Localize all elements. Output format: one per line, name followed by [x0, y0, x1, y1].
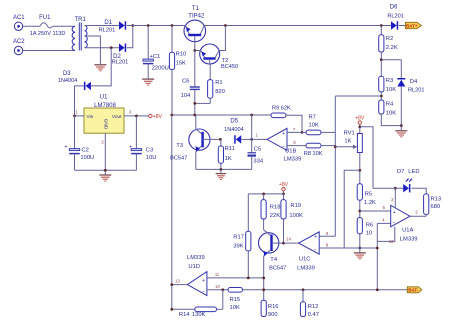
- node R4/D4 ground junction: [400, 124, 403, 127]
- node D7 line pin3 tap: [394, 187, 397, 190]
- svg-text:130K: 130K: [192, 312, 206, 317]
- node T2 emitter on T1 base line: [193, 49, 196, 52]
- node wiper on reference vertical: [334, 145, 337, 148]
- svg-text:R10: R10: [176, 51, 187, 57]
- wire R14 drop: [222, 290, 224, 310]
- wire U1C -input lead: [319, 247, 344, 249]
- svg-text:BC547: BC547: [170, 155, 187, 161]
- svg-text:+: +: [129, 144, 132, 150]
- svg-text:820: 820: [215, 89, 225, 95]
- svg-text:2.2K: 2.2K: [386, 45, 398, 51]
- op-amp U1C LM339: [297, 232, 319, 272]
- svg-text:C6: C6: [182, 79, 189, 85]
- wire U1B -input lead: [287, 145, 306, 147]
- node R17 on U1D +input: [247, 277, 250, 280]
- resistor R15 10K: [228, 288, 243, 311]
- wire U1C +input lead: [319, 235, 335, 237]
- svg-text:+: +: [393, 210, 396, 216]
- svg-text:+C1: +C1: [150, 54, 161, 60]
- svg-text:15K: 15K: [176, 61, 186, 67]
- node T4 emitter on U1D +input: [262, 277, 265, 280]
- wire ground net under T3: [196, 168, 252, 170]
- svg-text:T1: T1: [192, 6, 200, 12]
- wire U1D +input lead: [207, 277, 264, 279]
- svg-text:RL201: RL201: [387, 13, 403, 19]
- wire D4 branch: [381, 60, 401, 78]
- node U1B output junction: [250, 138, 253, 141]
- svg-text:10K: 10K: [386, 110, 396, 116]
- svg-text:AC2: AC2: [13, 39, 25, 45]
- svg-text:BC450: BC450: [221, 64, 238, 70]
- resistor R12 0.47: [300, 290, 319, 318]
- svg-text:10K: 10K: [309, 123, 319, 129]
- node T1 base column on drive net: [193, 114, 196, 117]
- resistor R5 1.2K: [357, 184, 376, 218]
- svg-text:Vin: Vin: [87, 114, 94, 120]
- node R12 on bottom rail: [302, 288, 305, 291]
- svg-text:U1A: U1A: [402, 227, 413, 233]
- resistor R4 10K: [379, 100, 402, 126]
- node R6 bottom ground junction: [358, 247, 361, 250]
- svg-text:2200U: 2200U: [152, 66, 169, 72]
- resistor R7 10K: [306, 115, 335, 135]
- node D3 tap on TR1 bottom wire: [110, 46, 113, 49]
- svg-text:LM7808: LM7808: [94, 103, 116, 109]
- wire RV1 bottom to U1C -input column: [344, 170, 360, 248]
- svg-text:+: +: [64, 144, 67, 150]
- svg-text:FU1: FU1: [39, 15, 51, 21]
- wire U1C output lead: [284, 242, 299, 244]
- svg-text:12: 12: [389, 239, 394, 244]
- pin 4 label U1A: [382, 218, 385, 223]
- svg-text:R7: R7: [309, 115, 316, 121]
- fuse FU1: [30, 15, 66, 37]
- svg-text:Vout: Vout: [112, 114, 122, 120]
- wire to ground below R4: [400, 126, 402, 131]
- node Vout/C3 junction: [135, 115, 138, 118]
- svg-text:13: 13: [175, 278, 180, 283]
- capacitor C5 334: [248, 139, 264, 169]
- svg-text:R2: R2: [386, 36, 393, 42]
- svg-text:10: 10: [366, 230, 372, 236]
- svg-text:+: +: [282, 131, 285, 137]
- svg-text:1.2K: 1.2K: [364, 200, 376, 206]
- wire U1D -input lead: [207, 289, 228, 291]
- node T2 collector on rail: [224, 24, 227, 27]
- svg-text:U1C: U1C: [299, 257, 311, 263]
- wire U1A -input lead: [377, 222, 390, 224]
- ground below R4: [395, 131, 407, 137]
- wire D4 cathode to R4 bottom: [400, 87, 402, 126]
- wire U1A pin3 VCC lead: [394, 188, 396, 208]
- pin 2 of U1: [101, 140, 104, 145]
- svg-text:+: +: [202, 278, 205, 284]
- node D5 column on drive net: [250, 114, 253, 117]
- svg-text:334: 334: [253, 159, 263, 165]
- node +8V/R19 junction: [282, 193, 285, 196]
- pin 5 label U1A: [383, 205, 386, 210]
- node U1D output on left column: [170, 283, 173, 286]
- node D6/R2 on rail: [380, 24, 383, 27]
- wire TR1 top tap to D1: [85, 25, 120, 27]
- wire U1A output lead: [410, 215, 426, 217]
- svg-text:+8V: +8V: [153, 114, 163, 120]
- resistor R14 130K: [172, 307, 223, 318]
- svg-text:39K: 39K: [233, 243, 243, 249]
- svg-text:680: 680: [431, 204, 441, 210]
- svg-text:100K: 100K: [289, 213, 303, 219]
- svg-text:C2: C2: [82, 148, 89, 154]
- node R3/R4 junction: [380, 95, 383, 98]
- resistor R1 820: [208, 80, 225, 104]
- ground below U1: [99, 175, 111, 181]
- resistor R10 15K: [169, 26, 186, 116]
- svg-text:1A 250V 113D: 1A 250V 113D: [30, 31, 66, 37]
- diode D3 1N4004: [58, 71, 91, 90]
- pin 1 label U1B output: [255, 133, 258, 138]
- pin 10 label U1D: [215, 284, 220, 289]
- wire reference tap to x335 vertical: [335, 95, 381, 97]
- svg-text:D6: D6: [390, 5, 398, 11]
- wire TR1 bottom tap to D2: [85, 47, 120, 49]
- resistor R18 22K: [261, 194, 280, 219]
- node T4 emitter on bottom rail: [262, 288, 265, 291]
- node x377 column on bottom rail: [376, 288, 379, 291]
- transistor T2 BC450: [195, 26, 238, 80]
- resistor R11 1K: [218, 139, 235, 169]
- wire U1 GND lead: [104, 133, 106, 174]
- wire +8V to D7 anode line: [360, 127, 373, 188]
- svg-text:R18: R18: [270, 205, 281, 211]
- node R14 tap on -input line: [221, 288, 224, 291]
- svg-text:+: +: [314, 235, 317, 241]
- resistor R13 680: [424, 194, 442, 216]
- node U1 GND junction: [104, 169, 107, 172]
- wire stub to ground below R6: [359, 248, 361, 253]
- svg-text:1N4004: 1N4004: [224, 127, 244, 133]
- svg-text:D4: D4: [410, 79, 418, 85]
- svg-text:14: 14: [286, 236, 291, 241]
- node C6/R1 junction: [193, 102, 196, 105]
- svg-text:R14: R14: [179, 312, 190, 317]
- wire U1A pin12 lead: [377, 227, 395, 242]
- svg-text:900: 900: [268, 312, 278, 317]
- svg-text:10K: 10K: [230, 305, 240, 311]
- svg-text:−: −: [314, 247, 317, 253]
- wire +8V down to divider line: [283, 191, 285, 194]
- svg-text:U1D: U1D: [188, 264, 200, 270]
- svg-text:TR1: TR1: [75, 17, 87, 23]
- svg-text:R1: R1: [215, 80, 222, 86]
- svg-text:−: −: [393, 220, 396, 226]
- power flag +8V at RV1: [355, 116, 365, 125]
- wire long vertical left column: [171, 115, 173, 309]
- svg-text:BAT-: BAT-: [408, 288, 419, 293]
- op-amp U1D LM339: [187, 255, 207, 295]
- svg-text:RV1: RV1: [344, 131, 355, 137]
- transistor T4 BC547: [259, 230, 287, 300]
- capacitor C3 10U: [129, 116, 156, 170]
- resistor R2 2.2K: [379, 26, 398, 77]
- pin 1 of U1: [75, 110, 78, 115]
- svg-text:AC1: AC1: [13, 15, 25, 21]
- wire R5/R6 junction to U1A +input: [360, 210, 391, 212]
- resistor R9 62K: [271, 105, 302, 132]
- svg-text:BC547: BC547: [269, 266, 286, 272]
- resistor R8 10K: [304, 143, 336, 157]
- svg-text:RL201: RL201: [99, 27, 115, 33]
- wire +8V feed line: [248, 193, 283, 195]
- terminal +8V at U1 output: [149, 114, 163, 120]
- wire D6 cathode to BAT+ tag: [399, 25, 406, 27]
- svg-text:C3: C3: [146, 148, 153, 154]
- node R5/R6 junction: [358, 210, 361, 213]
- node T4 base / R19 / U1C output junction: [282, 242, 285, 245]
- resistor R3 10K: [379, 76, 397, 100]
- svg-text:RL201: RL201: [408, 88, 424, 94]
- pin 9 label U1C: [326, 231, 329, 236]
- resistor R17 39K: [233, 194, 251, 278]
- svg-text:−: −: [202, 289, 205, 295]
- node R10 bottom on drive net: [170, 114, 173, 117]
- svg-text:R3: R3: [386, 78, 393, 84]
- wire R18 to T4 collector: [263, 219, 265, 230]
- wire D3 branch from bottom tap: [91, 48, 111, 86]
- wire stub to ground symbol: [220, 169, 222, 173]
- terminal AC1: [13, 15, 25, 30]
- wire R1 bottom to C6 bottom: [195, 102, 210, 104]
- diode D2 RL201: [112, 44, 128, 66]
- svg-text:10U: 10U: [146, 155, 157, 161]
- wire D7 anode line: [373, 187, 403, 189]
- svg-text:R15: R15: [230, 297, 241, 303]
- wire reference vertical x335: [334, 96, 336, 236]
- svg-text:R9 62K: R9 62K: [272, 105, 291, 111]
- regulator U1 LM7808: [84, 95, 124, 134]
- svg-text:R13: R13: [431, 196, 442, 202]
- ground below R11: [216, 174, 227, 180]
- svg-text:1K: 1K: [225, 156, 232, 162]
- wire bottom rail to BAT-: [243, 289, 408, 291]
- svg-text:LM339: LM339: [284, 157, 302, 163]
- diode D1 RL201: [99, 20, 126, 33]
- diode D4 RL201 vertical: [397, 78, 424, 94]
- node T3 base junction: [219, 138, 222, 141]
- svg-text:LM339: LM339: [187, 255, 205, 261]
- svg-text:LM339: LM339: [297, 265, 315, 271]
- tag BAT+: [405, 22, 421, 28]
- node C1 on rail: [147, 24, 150, 27]
- svg-text:1N4004: 1N4004: [58, 78, 78, 84]
- node R11 on ground net: [220, 168, 223, 171]
- ground at TR1 center tap: [94, 65, 106, 71]
- svg-text:U1: U1: [100, 95, 108, 101]
- svg-text:104: 104: [181, 93, 191, 99]
- svg-text:BAT+: BAT+: [406, 24, 418, 29]
- node R14 on left column: [170, 308, 173, 311]
- svg-text:R16: R16: [268, 304, 279, 310]
- resistor R16 900: [261, 300, 278, 318]
- transistor T1 TIP42: [184, 6, 206, 50]
- svg-text:T3: T3: [176, 143, 183, 149]
- power flag +8V at R18/R19: [279, 182, 289, 191]
- resistor R19 100K: [281, 194, 303, 243]
- wire +8V to RV1 top: [359, 124, 361, 133]
- svg-text:100U: 100U: [80, 155, 94, 161]
- node R18 on feed line: [262, 193, 265, 196]
- svg-text:D7: D7: [397, 169, 404, 175]
- svg-text:LM339: LM339: [400, 237, 418, 243]
- transformer TR1: [72, 17, 87, 51]
- pin 14 label U1C: [286, 236, 291, 241]
- wire U1 Vin lead: [75, 115, 85, 117]
- pin 7 label U1B: [293, 127, 296, 132]
- node RV1 bottom junction: [358, 169, 361, 172]
- pin 13 label U1D: [175, 278, 180, 283]
- transistor T3 BC547: [170, 115, 220, 169]
- wire main +V rail: [127, 25, 391, 27]
- wire AC1 to fuse: [23, 25, 40, 27]
- pin 11 label U1D: [215, 272, 220, 277]
- wire U1B output lead: [252, 138, 267, 140]
- svg-text:R4: R4: [386, 102, 394, 108]
- node R9 on U1B +input: [301, 131, 304, 134]
- svg-text:R19: R19: [290, 203, 301, 209]
- op-amp U1A LM339: [391, 205, 418, 242]
- svg-text:C5: C5: [254, 146, 261, 152]
- node ground net on x377 column: [376, 247, 379, 250]
- svg-text:R8 10K: R8 10K: [304, 151, 323, 157]
- wire U1 ground rail: [75, 169, 137, 171]
- wire U1A ground column x377: [376, 223, 378, 289]
- svg-text:R12: R12: [308, 304, 319, 310]
- svg-text:22K: 22K: [270, 213, 280, 219]
- wire D5 column vertical: [251, 115, 253, 139]
- svg-text:D1: D1: [104, 20, 112, 26]
- pin 12 label U1A: [389, 239, 394, 244]
- svg-text:R5: R5: [365, 191, 372, 197]
- node Vin/C2 junction: [73, 115, 76, 118]
- resistor R6 10: [357, 218, 373, 248]
- wire ground net bottom right: [344, 247, 377, 249]
- diode D5 1N4004: [224, 119, 244, 144]
- wire D2 cathode up to rail: [127, 26, 133, 48]
- wire fuse to TR1 primary: [53, 25, 75, 27]
- wire RV1 bottom: [359, 153, 361, 184]
- node +8V branch to D7 line: [358, 125, 361, 128]
- wire AC2 to TR1 primary: [23, 50, 75, 52]
- wire U1 Vout lead to +8V terminal: [124, 115, 149, 117]
- svg-text:R6: R6: [366, 222, 373, 228]
- pin 3 label U1A: [391, 197, 394, 202]
- pin 6 label U1B: [293, 140, 296, 145]
- svg-text:GND: GND: [103, 119, 109, 130]
- pin 3 of U1: [129, 110, 132, 115]
- tag BAT-: [407, 287, 422, 293]
- wire D3 cathode to U1 Vin: [75, 86, 84, 116]
- capacitor C6 104: [181, 51, 200, 116]
- wire U1B +input lead: [287, 131, 306, 133]
- op-amp U1B LM339: [267, 128, 301, 162]
- capacitor C1 2200U: [143, 26, 169, 79]
- svg-text:1K: 1K: [344, 139, 351, 145]
- wire drive net horizontal: [172, 114, 271, 116]
- svg-text:T4: T4: [270, 257, 278, 263]
- wire TR1 center tap: [85, 36, 101, 64]
- ground below C1: [142, 79, 154, 85]
- svg-text:10: 10: [215, 284, 220, 289]
- wire D7 cathode to R13: [412, 188, 427, 194]
- diode D6 RL201: [387, 5, 403, 30]
- node R10 on rail: [171, 24, 174, 27]
- svg-text:LED: LED: [408, 169, 419, 175]
- wire U1D output lead: [172, 284, 188, 286]
- svg-text:0.47: 0.47: [308, 312, 319, 317]
- wire RV1 wiper with arrow: [335, 145, 357, 149]
- node R2/R3 junction: [380, 58, 383, 61]
- svg-text:11: 11: [215, 272, 220, 277]
- pin 8 label U1C: [326, 243, 329, 248]
- pin 2 label U1A: [415, 209, 418, 214]
- svg-text:U1B: U1B: [285, 149, 296, 155]
- LED D7: [397, 169, 420, 193]
- node D2 junction on rail: [131, 24, 134, 27]
- terminal AC2: [13, 39, 25, 54]
- svg-text:R11: R11: [225, 146, 235, 152]
- svg-text:D5: D5: [230, 119, 238, 125]
- svg-text:D3: D3: [63, 71, 71, 77]
- svg-text:RL201: RL201: [112, 60, 128, 66]
- ground below R6: [354, 253, 366, 259]
- svg-text:R17: R17: [233, 235, 244, 241]
- capacitor C2 100U: [64, 116, 94, 170]
- potentiometer RV1 1K: [344, 131, 363, 153]
- wire D5 anode to U1B output node: [241, 138, 252, 140]
- svg-text:10K: 10K: [386, 87, 396, 93]
- svg-text:TIP42: TIP42: [188, 14, 205, 20]
